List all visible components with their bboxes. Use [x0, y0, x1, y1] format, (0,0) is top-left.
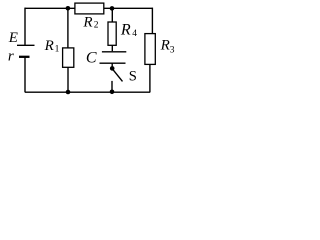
- resistor R3: [145, 34, 155, 65]
- switch S blade: [113, 69, 123, 81]
- svg-text:R: R: [120, 21, 131, 38]
- svg-text:R: R: [82, 14, 92, 30]
- wire R4 branch upper: [111, 8, 113, 22]
- wire R1 branch upper: [67, 8, 69, 48]
- node switch top contact dot: [110, 66, 115, 71]
- resistor R2: [75, 3, 104, 14]
- svg-text:C: C: [86, 50, 97, 67]
- wire R4 to capacitor: [111, 45, 113, 51]
- svg-text:3: 3: [170, 45, 175, 55]
- node junction dot right of R2: [110, 6, 115, 11]
- battery E short thick plate: [19, 56, 30, 58]
- node junction dot top-left (R1 branch): [66, 6, 71, 11]
- wire right rail lower: [149, 64, 151, 92]
- wire top rail left segment: [25, 7, 75, 9]
- capacitor C top plate: [102, 51, 126, 53]
- svg-text:2: 2: [94, 21, 99, 31]
- wire R1 branch lower: [67, 67, 69, 92]
- wire bottom rail: [25, 91, 150, 93]
- svg-text:R: R: [44, 38, 54, 54]
- svg-text:R: R: [160, 38, 170, 54]
- wire right rail upper: [151, 8, 153, 34]
- svg-text:S: S: [129, 68, 137, 84]
- wire left rail lower (battery bottom lead): [24, 57, 26, 92]
- wire top rail right segment: [104, 7, 153, 9]
- capacitor C bottom plate: [100, 62, 126, 64]
- node switch bottom contact dot on rail: [110, 90, 115, 95]
- wire capacitor to switch: [111, 63, 113, 66]
- wire left rail upper (battery top lead): [24, 8, 26, 45]
- svg-text:1: 1: [55, 44, 60, 54]
- node junction dot R1-bottom rail: [66, 90, 71, 95]
- svg-text:r: r: [8, 48, 14, 64]
- svg-text:E: E: [8, 30, 18, 46]
- resistor R4: [108, 22, 116, 45]
- svg-text:4: 4: [132, 29, 137, 39]
- wire switch bottom stub: [111, 81, 113, 92]
- resistor R1: [63, 48, 74, 67]
- battery E long plate: [17, 44, 35, 46]
